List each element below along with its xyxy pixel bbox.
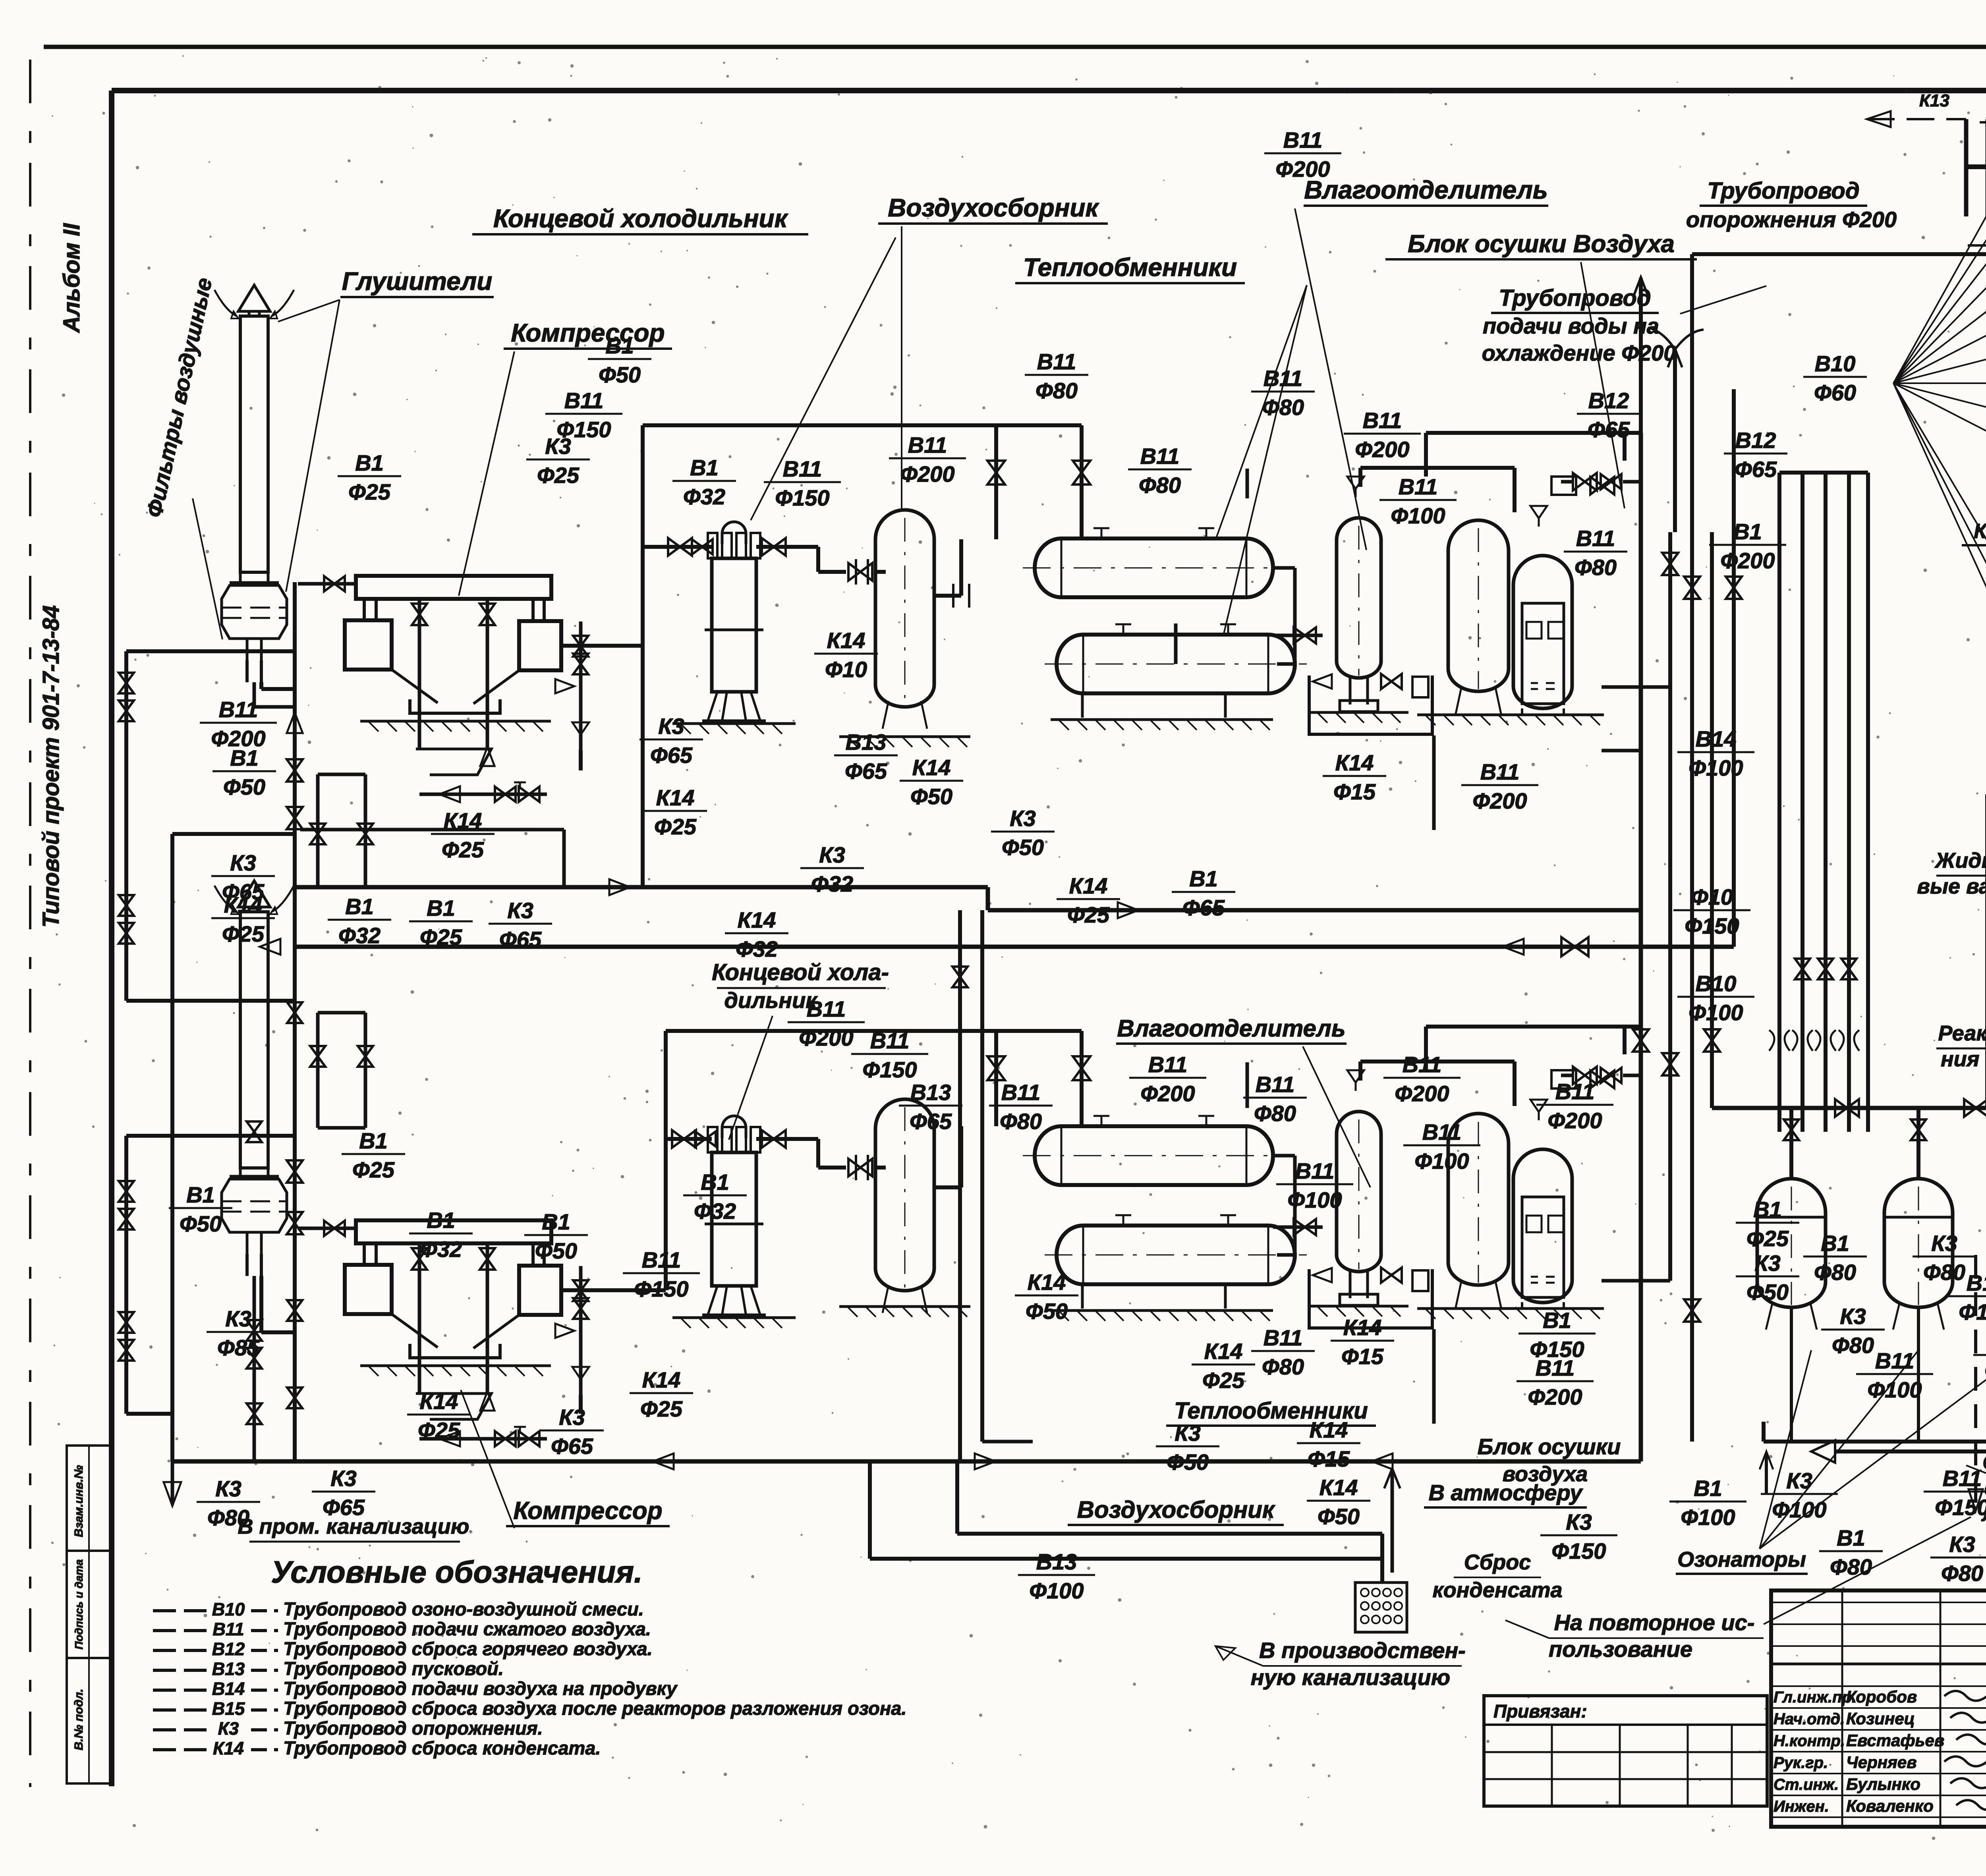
ozonator 1 drain xyxy=(1790,1307,1793,1442)
svg-text:Компрессор: Компрессор xyxy=(511,318,665,347)
pipe: inner-left riser pair xyxy=(124,651,128,1001)
svg-text:Ф200: Ф200 xyxy=(1528,1384,1582,1409)
svg-text:Ф80: Ф80 xyxy=(1923,1260,1965,1285)
svg-text:Сброс в производ-: Сброс в производ- xyxy=(1982,1451,1986,1474)
svg-text:В1: В1 xyxy=(427,1208,455,1233)
svg-text:Ф150: Ф150 xyxy=(1685,913,1739,938)
moisture separator 1 drain pan xyxy=(1309,676,1432,734)
svg-text:В производствен-: В производствен- xyxy=(1259,1638,1466,1663)
svg-text:Ф25: Ф25 xyxy=(1746,1226,1789,1251)
svg-text:Ф32: Ф32 xyxy=(694,1199,736,1224)
svg-text:Ф25: Ф25 xyxy=(418,1418,460,1443)
svg-text:Коробов: Коробов xyxy=(1846,1687,1917,1706)
svg-text:Альбом II: Альбом II xyxy=(59,223,85,334)
pipe: risers right of dryer xyxy=(1639,433,1643,1461)
recuperation chamber comb left xyxy=(1966,164,1986,169)
pipe: B1 riser top arrow xyxy=(1639,278,1643,433)
svg-text:В11: В11 xyxy=(1148,1052,1188,1077)
svg-text:Ф65: Ф65 xyxy=(1588,417,1630,442)
svg-text:Ф100: Ф100 xyxy=(1772,1497,1826,1522)
moisture separator 1 xyxy=(1337,518,1381,678)
pipe: separator top pipes lower xyxy=(1360,1060,1515,1063)
svg-text:Ф60: Ф60 xyxy=(1814,380,1856,405)
svg-text:Сброс: Сброс xyxy=(1464,1550,1531,1574)
svg-text:В1: В1 xyxy=(1694,1476,1722,1501)
compressor 1 inlet valve xyxy=(298,582,356,586)
svg-text:Трубопровод опорожнения.: Трубопровод опорожнения. xyxy=(283,1718,543,1739)
svg-text:В11: В11 xyxy=(1140,444,1180,469)
svg-text:В11: В11 xyxy=(1403,1052,1442,1077)
svg-text:К3: К3 xyxy=(1175,1421,1201,1446)
legend line В15 xyxy=(153,1708,207,1712)
svg-text:В1: В1 xyxy=(230,745,259,770)
svg-text:В11: В11 xyxy=(870,1028,910,1053)
svg-text:В1: В1 xyxy=(542,1209,570,1234)
compressor 2 drain loop xyxy=(419,1437,547,1441)
svg-text:В12: В12 xyxy=(1588,388,1629,413)
svg-text:Ф100: Ф100 xyxy=(1414,1148,1469,1173)
svg-text:Ф10: Ф10 xyxy=(1691,884,1733,909)
svg-text:В.№ подл.: В.№ подл. xyxy=(72,1689,85,1751)
pipe: left manifold verticals upper xyxy=(316,774,320,887)
svg-text:Ф100: Ф100 xyxy=(1688,1000,1743,1025)
svg-text:Ф80: Ф80 xyxy=(1830,1554,1872,1579)
air dryer 1 inlet funnel xyxy=(1530,506,1547,518)
svg-text:К3: К3 xyxy=(1786,1468,1812,1493)
svg-text:Ф80: Ф80 xyxy=(1254,1101,1296,1126)
svg-text:К3: К3 xyxy=(1949,1532,1975,1557)
K13 arrow left xyxy=(1867,118,1966,120)
svg-text:Козинец: Козинец xyxy=(1846,1709,1915,1728)
air receiver 2 xyxy=(875,1099,934,1291)
svg-text:Трубопровод: Трубопровод xyxy=(1707,178,1859,204)
svg-text:Трубопровод сброса воздуха: Трубопровод сброса воздуха после реактор… xyxy=(283,1698,906,1719)
svg-text:ственную кана-: ственную кана- xyxy=(1984,1477,1986,1500)
end cooler 2 xyxy=(722,1116,746,1128)
svg-text:В11: В11 xyxy=(1256,1072,1295,1097)
svg-text:Ф25: Ф25 xyxy=(1067,902,1110,927)
compressor 2 inlet valve xyxy=(298,1227,356,1230)
svg-text:Подпись и дата: Подпись и дата xyxy=(73,1559,85,1650)
svg-text:Ф50: Ф50 xyxy=(1318,1504,1360,1529)
svg-text:ную канализацию: ную канализацию xyxy=(1251,1665,1450,1690)
svg-text:В12: В12 xyxy=(212,1639,245,1659)
svg-text:В1: В1 xyxy=(1821,1231,1849,1256)
svg-text:Ф25: Ф25 xyxy=(654,814,697,839)
svg-text:К3: К3 xyxy=(545,434,571,459)
svg-text:Ф100: Ф100 xyxy=(1688,755,1743,780)
pipe: bundle valves xyxy=(1795,959,1810,979)
svg-text:К3: К3 xyxy=(225,1306,251,1331)
svg-text:Ф50: Ф50 xyxy=(1002,835,1044,860)
svg-text:В1: В1 xyxy=(1753,1197,1782,1222)
svg-text:Инжен.: Инжен. xyxy=(1773,1798,1829,1815)
svg-text:К3: К3 xyxy=(658,714,684,739)
pipe: chamber risers mid xyxy=(1985,794,1986,1108)
pipe: lower cooler valve row xyxy=(666,1137,712,1141)
svg-text:Ф50: Ф50 xyxy=(599,362,641,387)
svg-text:В11: В11 xyxy=(1001,1080,1041,1105)
svg-text:Черняев: Черняев xyxy=(1846,1753,1917,1772)
svg-text:В11: В11 xyxy=(564,388,604,413)
legend line В10 xyxy=(153,1609,207,1612)
compressor 2 right outlet xyxy=(561,1289,581,1292)
svg-text:пользование: пользование xyxy=(1549,1637,1692,1662)
svg-text:Ф65: Ф65 xyxy=(650,743,693,768)
pipe: upper B1 F50 loop xyxy=(643,423,1082,427)
svg-text:К14: К14 xyxy=(420,1389,458,1414)
svg-text:Условные обозначения.: Условные обозначения. xyxy=(271,1554,642,1589)
svg-text:Блок осушки Воздуха: Блок осушки Воздуха xyxy=(1408,230,1675,258)
svg-text:В атмосферу: В атмосферу xyxy=(1429,1480,1584,1505)
svg-text:К3: К3 xyxy=(559,1405,585,1430)
svg-text:Ф50: Ф50 xyxy=(1026,1299,1068,1324)
heat exchanger 2 supports xyxy=(1081,1284,1084,1309)
svg-text:Трубопровод пусковой.: Трубопровод пусковой. xyxy=(283,1658,504,1679)
svg-text:Воздухосборник: Воздухосборник xyxy=(1077,1496,1275,1523)
svg-text:В11: В11 xyxy=(1295,1158,1335,1183)
moisture separator 2 drain pan xyxy=(1309,1269,1432,1328)
svg-text:Камера смешения №3: Камера смешения №3 xyxy=(1974,520,1986,543)
svg-text:Ф50: Ф50 xyxy=(1167,1449,1209,1475)
svg-text:Ф200: Ф200 xyxy=(1275,156,1330,181)
svg-text:вые вакуум - насосы: вые вакуум - насосы xyxy=(1917,874,1986,898)
svg-text:Н.контр.: Н.контр. xyxy=(1773,1732,1845,1750)
pipe: bundle flex joints xyxy=(1769,1030,1774,1051)
svg-text:Ф200: Ф200 xyxy=(1395,1081,1449,1106)
pipe: dryer to riser links upper xyxy=(1639,433,1643,482)
svg-text:К3: К3 xyxy=(1931,1231,1957,1256)
pipe: ozonator feed manifold xyxy=(1712,1106,1986,1110)
svg-text:Ф10: Ф10 xyxy=(825,657,867,682)
svg-text:Концевой хола-: Концевой хола- xyxy=(712,959,889,985)
legend line В12 xyxy=(153,1649,207,1652)
svg-text:Ст.инж.: Ст.инж. xyxy=(1773,1776,1839,1793)
pipe: compressor 1 loop xyxy=(261,687,295,691)
svg-text:дильник: дильник xyxy=(724,988,818,1013)
svg-text:К3: К3 xyxy=(1754,1251,1781,1276)
legend line В11 xyxy=(153,1629,207,1632)
pipe: dryer to riser links lower xyxy=(1602,1279,1670,1283)
svg-text:Ф65: Ф65 xyxy=(551,1434,593,1459)
svg-text:Гл.инж.пр.: Гл.инж.пр. xyxy=(1773,1689,1856,1706)
svg-text:Ф65: Ф65 xyxy=(845,759,887,784)
svg-text:В11: В11 xyxy=(642,1247,681,1272)
title block: signature grid xyxy=(1841,1590,1843,1827)
svg-text:Ф25: Ф25 xyxy=(352,1157,395,1182)
pipe: bottom header arrows xyxy=(975,1453,995,1469)
svg-text:Ф80: Ф80 xyxy=(1814,1260,1856,1285)
compressor 1 funnel risers xyxy=(418,599,421,749)
svg-text:Ф32: Ф32 xyxy=(736,936,778,961)
svg-text:Ф200: Ф200 xyxy=(1720,548,1775,573)
svg-text:Булынко: Булынко xyxy=(1846,1775,1920,1793)
pipe: cooler outlet to receiver xyxy=(816,547,820,572)
svg-text:Взам.инв.№: Взам.инв.№ xyxy=(72,1465,85,1537)
svg-text:Ф50: Ф50 xyxy=(180,1211,222,1236)
svg-text:опорожнения Ф200: опорожнения Ф200 xyxy=(1686,207,1897,232)
end cooler 2 ground xyxy=(672,1316,796,1319)
svg-text:Теплообменники: Теплообменники xyxy=(1023,253,1237,282)
svg-text:К3: К3 xyxy=(330,1466,357,1491)
title block: main stamp xyxy=(1771,1590,1986,1827)
svg-text:Ф200: Ф200 xyxy=(900,461,954,486)
svg-text:В11: В11 xyxy=(1480,759,1520,784)
svg-text:Ф80: Ф80 xyxy=(1575,555,1617,580)
svg-text:В11: В11 xyxy=(1263,366,1303,391)
svg-text:К14: К14 xyxy=(1343,1315,1382,1340)
air dryer 2 inlet funnel xyxy=(1530,1100,1547,1112)
pipe: central risers x2417 x2473 xyxy=(958,910,962,1461)
drawing frame border xyxy=(112,88,1986,93)
pipe: receiver right nozzle flange xyxy=(934,594,961,598)
heat exchanger 2 upper xyxy=(1035,1126,1273,1185)
svg-text:К3: К3 xyxy=(215,1476,241,1501)
air filter 1 xyxy=(230,581,279,585)
svg-text:К14: К14 xyxy=(1335,750,1374,775)
title block: privyazan box xyxy=(1484,1696,1767,1806)
svg-text:К14: К14 xyxy=(224,892,263,917)
svg-text:Воздухосборник: Воздухосборник xyxy=(888,193,1099,222)
svg-text:К3: К3 xyxy=(1840,1304,1866,1329)
air dryer 1 safety device xyxy=(1551,477,1576,495)
svg-text:Глушители: Глушители xyxy=(342,267,493,295)
air dryer 2 safety device xyxy=(1551,1070,1576,1089)
ozonator 1 xyxy=(1757,1179,1826,1307)
svg-text:Ф50: Ф50 xyxy=(910,784,952,809)
pipe: dryer loop upper xyxy=(1426,431,1641,435)
pipe: riser valves xyxy=(1662,553,1678,575)
pipe: left bus vertical x427 xyxy=(170,834,174,1461)
pipe: HX feed valves lower xyxy=(987,1056,1005,1080)
svg-text:Трубопровод подачи сжатого: Трубопровод подачи сжатого воздуха. xyxy=(283,1618,651,1639)
svg-text:Ф15: Ф15 xyxy=(1333,779,1376,804)
svg-text:В11: В11 xyxy=(1555,1079,1595,1104)
compressor 1 funnel xyxy=(392,670,438,703)
svg-text:Ф25: Ф25 xyxy=(442,837,484,862)
svg-text:Рук.гр.: Рук.гр. xyxy=(1773,1754,1828,1772)
svg-text:В1: В1 xyxy=(605,333,634,358)
svg-text:К14: К14 xyxy=(1319,1475,1358,1500)
compressor 1 xyxy=(356,576,551,599)
svg-text:Компрессор: Компрессор xyxy=(513,1497,662,1525)
svg-text:Ф200: Ф200 xyxy=(1140,1081,1195,1106)
air dryer cabinet vessel 2 xyxy=(1513,1149,1572,1303)
svg-text:Ф80: Ф80 xyxy=(1139,473,1181,498)
svg-text:Типовой проект 901-7-13-84: Типовой проект 901-7-13-84 xyxy=(38,605,64,928)
svg-text:Нач.отд.: Нач.отд. xyxy=(1773,1710,1845,1728)
pipe: HX feed valves upper xyxy=(987,461,1005,484)
svg-text:В14: В14 xyxy=(1696,726,1737,751)
legend line К3 xyxy=(153,1728,207,1731)
svg-text:В13: В13 xyxy=(846,730,887,755)
svg-text:К14: К14 xyxy=(738,907,776,932)
svg-text:Ф25: Ф25 xyxy=(537,463,580,488)
heat exchanger 1 supports xyxy=(1081,693,1084,718)
pipe: compressor 2 loop xyxy=(261,1330,295,1334)
sheet top edge line xyxy=(44,45,1986,49)
svg-text:Ф80: Ф80 xyxy=(1262,395,1304,420)
svg-text:Ф80: Ф80 xyxy=(1036,378,1078,403)
svg-text:Ф25: Ф25 xyxy=(222,921,265,946)
compressor 2 funnel xyxy=(392,1314,438,1347)
pipe: ozonator manifold valves xyxy=(1835,1099,1859,1117)
svg-text:В1: В1 xyxy=(427,896,455,921)
svg-text:К14: К14 xyxy=(1204,1339,1243,1364)
compressor 2 xyxy=(356,1220,551,1243)
pipe: HX1 to HX2 link xyxy=(1273,566,1295,570)
svg-text:ния озона: ния озона xyxy=(1941,1047,1986,1071)
svg-text:Влагоотделитель: Влагоотделитель xyxy=(1304,176,1548,204)
svg-text:В пром. канализацию: В пром. канализацию xyxy=(238,1515,469,1538)
pipe: K14 condensate line xyxy=(300,828,564,832)
pipe: upper B11 F200 header xyxy=(1246,469,1249,498)
svg-text:Влагоотделитель: Влагоотделитель xyxy=(1117,1015,1345,1042)
pipe: main middle bus 2 xyxy=(295,945,1734,949)
svg-text:Ф200: Ф200 xyxy=(799,1025,853,1050)
svg-text:Ф80: Ф80 xyxy=(1941,1561,1983,1586)
pipe: upper cooler valve row xyxy=(655,545,712,549)
svg-text:В14: В14 xyxy=(212,1679,245,1699)
left stamp column xyxy=(67,1446,112,1783)
svg-text:Привязан:: Привязан: xyxy=(1493,1701,1587,1722)
pipe: ozonator bottom collector xyxy=(1764,1440,1986,1444)
svg-text:К3: К3 xyxy=(230,850,256,875)
moisture separator 1 ground xyxy=(1309,711,1408,714)
svg-text:В13: В13 xyxy=(1036,1549,1077,1574)
svg-text:Ф15: Ф15 xyxy=(1308,1446,1350,1471)
svg-text:В11: В11 xyxy=(1536,1355,1575,1380)
svg-text:Ф25: Ф25 xyxy=(1202,1368,1245,1393)
svg-text:К3: К3 xyxy=(218,1718,239,1739)
svg-text:В11: В11 xyxy=(1875,1348,1915,1373)
air dryer vessel 1 xyxy=(1448,520,1509,691)
svg-text:Ф80: Ф80 xyxy=(1832,1333,1874,1358)
pipe: upper dryer block bottom tie xyxy=(1602,749,1641,753)
pipe: separator top pipes upper xyxy=(1360,466,1515,470)
svg-text:Коваленко: Коваленко xyxy=(1846,1797,1934,1815)
svg-text:Ф80: Ф80 xyxy=(1262,1354,1304,1379)
svg-text:В1: В1 xyxy=(1733,519,1762,544)
svg-text:Ф50: Ф50 xyxy=(535,1238,577,1263)
air filter 2 xyxy=(230,1175,279,1179)
svg-text:Ф25: Ф25 xyxy=(640,1396,683,1421)
svg-text:В11: В11 xyxy=(219,697,258,722)
svg-text:Ф15: Ф15 xyxy=(1341,1344,1384,1369)
svg-text:Ф32: Ф32 xyxy=(683,484,725,509)
air dryer cabinet vessel 1 xyxy=(1513,556,1572,708)
moisture separator 2 ground xyxy=(1309,1305,1408,1308)
pipe: top distribution to chambers xyxy=(1692,252,1986,256)
svg-text:В11: В11 xyxy=(1263,1325,1303,1350)
svg-text:В11: В11 xyxy=(783,456,822,481)
air dryer 1 ground xyxy=(1417,714,1604,716)
pipe: left manifold extra valves xyxy=(247,1121,262,1142)
pipe: lower B11 F200 header xyxy=(1246,1062,1249,1108)
svg-text:В11: В11 xyxy=(1422,1119,1462,1145)
svg-text:Трубопровод: Трубопровод xyxy=(1499,285,1651,311)
svg-text:К14: К14 xyxy=(912,755,951,780)
heat exchanger 1 ground xyxy=(1051,718,1273,721)
pipe: atmosphere vent lower xyxy=(1391,1469,1394,1573)
svg-text:охлаждение Ф200: охлаждение Ф200 xyxy=(1482,340,1676,365)
svg-text:Трубопровод озоно-воздушной: Трубопровод озоно-воздушной смеси. xyxy=(283,1598,644,1619)
left sheet edge artifact line xyxy=(29,60,31,1787)
svg-text:В1: В1 xyxy=(1543,1308,1571,1333)
pipe: bus check valves xyxy=(609,879,630,895)
svg-text:Ф100: Ф100 xyxy=(1029,1578,1084,1603)
svg-text:К14: К14 xyxy=(1069,873,1108,898)
pipe: riser bundle to vacuum pumps xyxy=(1777,473,1781,1132)
svg-text:Блок осушки: Блок осушки xyxy=(1478,1434,1621,1459)
svg-text:В1: В1 xyxy=(359,1128,388,1153)
heat exchanger 1 lower xyxy=(1057,635,1295,693)
pipe: dryer loop lower xyxy=(1426,1025,1641,1029)
svg-text:Ф25: Ф25 xyxy=(348,479,391,504)
pipe: dryer top valves lower xyxy=(1573,1067,1597,1084)
moisture separator 2 inlet funnel xyxy=(1347,1070,1364,1083)
svg-text:Ф80: Ф80 xyxy=(1000,1109,1042,1134)
svg-text:Ф32: Ф32 xyxy=(420,1237,462,1262)
compressor 2 ground xyxy=(360,1365,551,1367)
svg-text:Ф100: Ф100 xyxy=(1867,1377,1922,1402)
svg-text:В13: В13 xyxy=(910,1080,951,1105)
svg-text:К3: К3 xyxy=(1566,1509,1592,1534)
svg-text:К3: К3 xyxy=(819,842,845,867)
moisture separator 1 pan valves xyxy=(1313,674,1332,689)
pipe: HX to separator upper xyxy=(1174,623,1178,664)
svg-text:Ф100: Ф100 xyxy=(1959,1299,1986,1324)
heat exchanger 1 upper xyxy=(1035,538,1273,597)
svg-text:К14: К14 xyxy=(656,785,695,810)
air dryer 2 ground xyxy=(1417,1307,1604,1310)
compressor 1 drain pit xyxy=(416,749,491,775)
svg-text:Ф50: Ф50 xyxy=(1746,1280,1789,1305)
svg-text:В11: В11 xyxy=(1576,526,1615,551)
moisture separator 1 inlet funnel xyxy=(1347,477,1364,489)
air receiver 1 xyxy=(875,510,934,707)
svg-text:В15: В15 xyxy=(212,1698,245,1719)
pipe: B13 condensate lines to collector xyxy=(957,1532,1382,1536)
svg-text:В12: В12 xyxy=(1735,428,1776,453)
compressor 1 ground xyxy=(360,720,551,723)
svg-text:В10: В10 xyxy=(1815,351,1856,376)
muffler 1 xyxy=(238,285,270,311)
svg-text:К14: К14 xyxy=(827,628,865,653)
svg-text:В11: В11 xyxy=(908,432,947,457)
svg-text:Ф150: Ф150 xyxy=(862,1057,917,1082)
svg-text:В11: В11 xyxy=(1399,474,1438,499)
legend line В14 xyxy=(153,1689,207,1692)
svg-text:Ф100: Ф100 xyxy=(1681,1505,1735,1530)
pipe: left manifold lower xyxy=(316,1013,320,1128)
svg-text:подачи воды на: подачи воды на xyxy=(1483,313,1659,338)
svg-text:В10: В10 xyxy=(1696,971,1737,996)
svg-text:На повторное ис-: На повторное ис- xyxy=(1554,1610,1755,1635)
svg-text:Ф150: Ф150 xyxy=(775,485,829,510)
svg-text:Ф150: Ф150 xyxy=(1935,1495,1986,1520)
svg-text:К3: К3 xyxy=(507,898,533,923)
pipe: inner-left riser lower xyxy=(124,1136,128,1414)
svg-text:Ф50: Ф50 xyxy=(223,774,265,799)
muffler 2 xyxy=(238,881,270,907)
legend line К14 xyxy=(153,1748,207,1751)
heat exchanger 2 lower xyxy=(1057,1226,1295,1284)
svg-text:Ф100: Ф100 xyxy=(1984,1358,1986,1383)
svg-text:В11: В11 xyxy=(1363,408,1402,433)
svg-text:В11: В11 xyxy=(1037,349,1076,374)
svg-text:Ф32: Ф32 xyxy=(811,871,853,896)
